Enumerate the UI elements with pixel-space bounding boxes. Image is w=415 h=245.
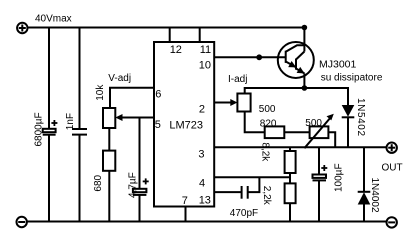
- emitter arrow inner: [288, 61, 296, 67]
- svg-text:680: 680: [93, 174, 104, 191]
- capacitor 470pF: [214, 177, 259, 198]
- svg-text:470pF: 470pF: [230, 208, 258, 219]
- wire pin 12 to rail: [169, 28, 171, 43]
- svg-text:6800µF: 6800µF: [34, 112, 45, 146]
- wire collector to rail: [303, 28, 305, 52]
- svg-text:12: 12: [170, 44, 182, 56]
- terminal -OUT: [387, 217, 397, 227]
- node base wire dot: [256, 54, 262, 60]
- wire pin 6 to potentiometer top: [110, 88, 154, 108]
- wire emitter down: [303, 73, 305, 88]
- plus mark of 100uF: [321, 165, 327, 171]
- wire emitter rail to diode: [245, 88, 348, 105]
- wire 10k to 680: [108, 128, 110, 151]
- svg-text:V-adj: V-adj: [108, 73, 131, 84]
- diode 1N5402: [342, 105, 355, 117]
- wire out rail pin 3: [214, 146, 387, 148]
- cathode bar of 1N4002: [358, 191, 371, 193]
- plus mark of 4.7uF: [143, 178, 149, 184]
- wire ground rail: [27, 221, 387, 223]
- plus mark of 6800uF: [51, 120, 57, 126]
- capacitor 4.7uF: [133, 118, 147, 222]
- wire pin 10 to base: [214, 56, 286, 58]
- resistor 2.2k: [285, 183, 296, 221]
- svg-text:10: 10: [199, 60, 211, 72]
- terminal +OUT: [387, 143, 397, 153]
- trimmer arrow: [304, 117, 331, 148]
- svg-text:1nF: 1nF: [65, 113, 76, 130]
- IC U1 LM723 body: [154, 42, 214, 207]
- wiper arrow of 500 pot: [230, 99, 237, 106]
- svg-text:5: 5: [155, 119, 161, 131]
- node top rail junction: [302, 25, 308, 31]
- svg-text:4: 4: [199, 177, 205, 189]
- resistor 680: [103, 151, 115, 171]
- svg-text:su dissipatore: su dissipatore: [321, 73, 383, 84]
- capacitor 1nF: [72, 28, 87, 222]
- trimmer 500 body: [310, 126, 329, 138]
- wire pin 7 to ground: [185, 207, 187, 222]
- svg-text:OUT: OUT: [382, 163, 403, 174]
- svg-text:40Vmax: 40Vmax: [35, 14, 72, 25]
- resistor 820: [265, 126, 285, 138]
- wire 1N4002 to out rail: [363, 147, 365, 192]
- wire 820 to trimmer: [284, 131, 309, 133]
- wiper arrow of 10k: [115, 114, 122, 121]
- potentiometer 10k body: [103, 108, 115, 128]
- terminal -IN: [17, 217, 27, 227]
- svg-text:10k: 10k: [95, 84, 106, 101]
- cathode bar of 1N5402: [342, 116, 355, 118]
- svg-text:8,2k: 8,2k: [259, 142, 270, 162]
- diode 1N4002: [358, 192, 371, 204]
- svg-text:820: 820: [260, 118, 277, 129]
- svg-text:LM723: LM723: [169, 120, 203, 132]
- resistor 8.2k: [285, 147, 296, 183]
- svg-text:11: 11: [200, 44, 211, 56]
- svg-text:13: 13: [199, 195, 211, 207]
- svg-text:MJ3001: MJ3001: [319, 59, 357, 71]
- capacitor 6800uF: [43, 28, 56, 222]
- wire pin 2 to wiper: [214, 102, 233, 104]
- emitter arrow outer: [297, 67, 305, 74]
- node emitter junction: [302, 85, 308, 91]
- wire 1N5402 to out rail: [347, 117, 349, 147]
- terminal +IN: [17, 23, 27, 33]
- transistor Q1 MJ3001: [278, 42, 314, 78]
- svg-text:3: 3: [198, 149, 204, 161]
- trimmer arrow head: [327, 114, 334, 121]
- wire pin 4 to divider: [214, 176, 290, 178]
- wire pot bottom to 820: [245, 112, 265, 133]
- svg-text:7: 7: [182, 195, 188, 207]
- svg-text:100µF: 100µF: [334, 163, 345, 192]
- capacitor 100uF: [313, 147, 327, 221]
- svg-text:1N4002: 1N4002: [369, 178, 380, 213]
- svg-text:500: 500: [259, 104, 276, 115]
- wire trimmer to out rail: [328, 132, 335, 147]
- svg-text:500: 500: [305, 118, 322, 129]
- svg-text:2,2k: 2,2k: [261, 186, 272, 206]
- wire 680 to ground: [108, 171, 110, 222]
- wire top supply rail: [28, 27, 305, 29]
- svg-text:4,7µF: 4,7µF: [127, 172, 138, 198]
- wire pin 5 to wiper: [121, 117, 154, 119]
- svg-text:6: 6: [155, 88, 161, 100]
- wire pin 11 to rail: [199, 28, 201, 43]
- svg-text:1N5402: 1N5402: [355, 98, 366, 137]
- svg-text:I-adj: I-adj: [228, 74, 247, 85]
- svg-text:2: 2: [199, 104, 205, 116]
- potentiometer I-adj 500 body: [237, 94, 250, 112]
- wire 1N4002 to ground: [363, 205, 365, 222]
